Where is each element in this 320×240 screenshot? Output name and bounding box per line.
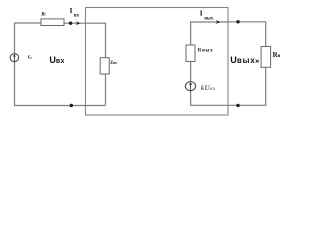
arrow Ivx (input current) (76, 21, 80, 25)
resistor Rg (41, 19, 64, 26)
wire: Rvyx to kUvx source (190, 62, 192, 82)
amplifier box (two-port) (86, 8, 229, 116)
svg-text:Rвых: Rвых (198, 49, 214, 54)
svg-text:вых: вых (204, 16, 213, 21)
x-mark at Rn input (256, 60, 259, 63)
wire: Zvx bottom lead (105, 74, 107, 106)
resistor Rvyx (output resistance) (186, 45, 195, 62)
wire: right top rail to Rn (228, 22, 266, 47)
svg-text:вх: вх (56, 58, 65, 65)
dependent source kUvx (185, 82, 195, 91)
node C (output bottom terminal) (236, 104, 239, 107)
EMF source Eg (10, 54, 19, 62)
svg-text:вх: вх (74, 13, 80, 18)
svg-text:вых: вых (237, 56, 256, 65)
wire: top-left horizontal to Rg (14, 22, 41, 24)
svg-text:I: I (70, 7, 73, 15)
impedance Zvx (100, 58, 109, 74)
wire: Rn bottom lead and right bottom rail (228, 67, 266, 105)
wire: kUvx bottom lead to rail (191, 91, 228, 106)
resistor Rn (load) (261, 47, 271, 68)
wire: bottom-left rail (14, 105, 106, 107)
svg-text:Eг: Eг (28, 55, 33, 60)
svg-text:I: I (200, 10, 203, 18)
arrow Ivyx (output current) (216, 20, 220, 24)
node B (output top terminal) (236, 20, 239, 23)
wire: inside box to Zvx top (86, 23, 106, 58)
svg-text:U: U (230, 55, 237, 65)
node A (input top terminal) (69, 22, 72, 25)
node D (input bottom terminal) (70, 104, 73, 107)
wire: left vertical (source branch) (14, 23, 16, 106)
wire: Rg to box (input wire) (64, 22, 86, 24)
wire: Rvyx top lead and output wire to box edge (191, 22, 228, 45)
